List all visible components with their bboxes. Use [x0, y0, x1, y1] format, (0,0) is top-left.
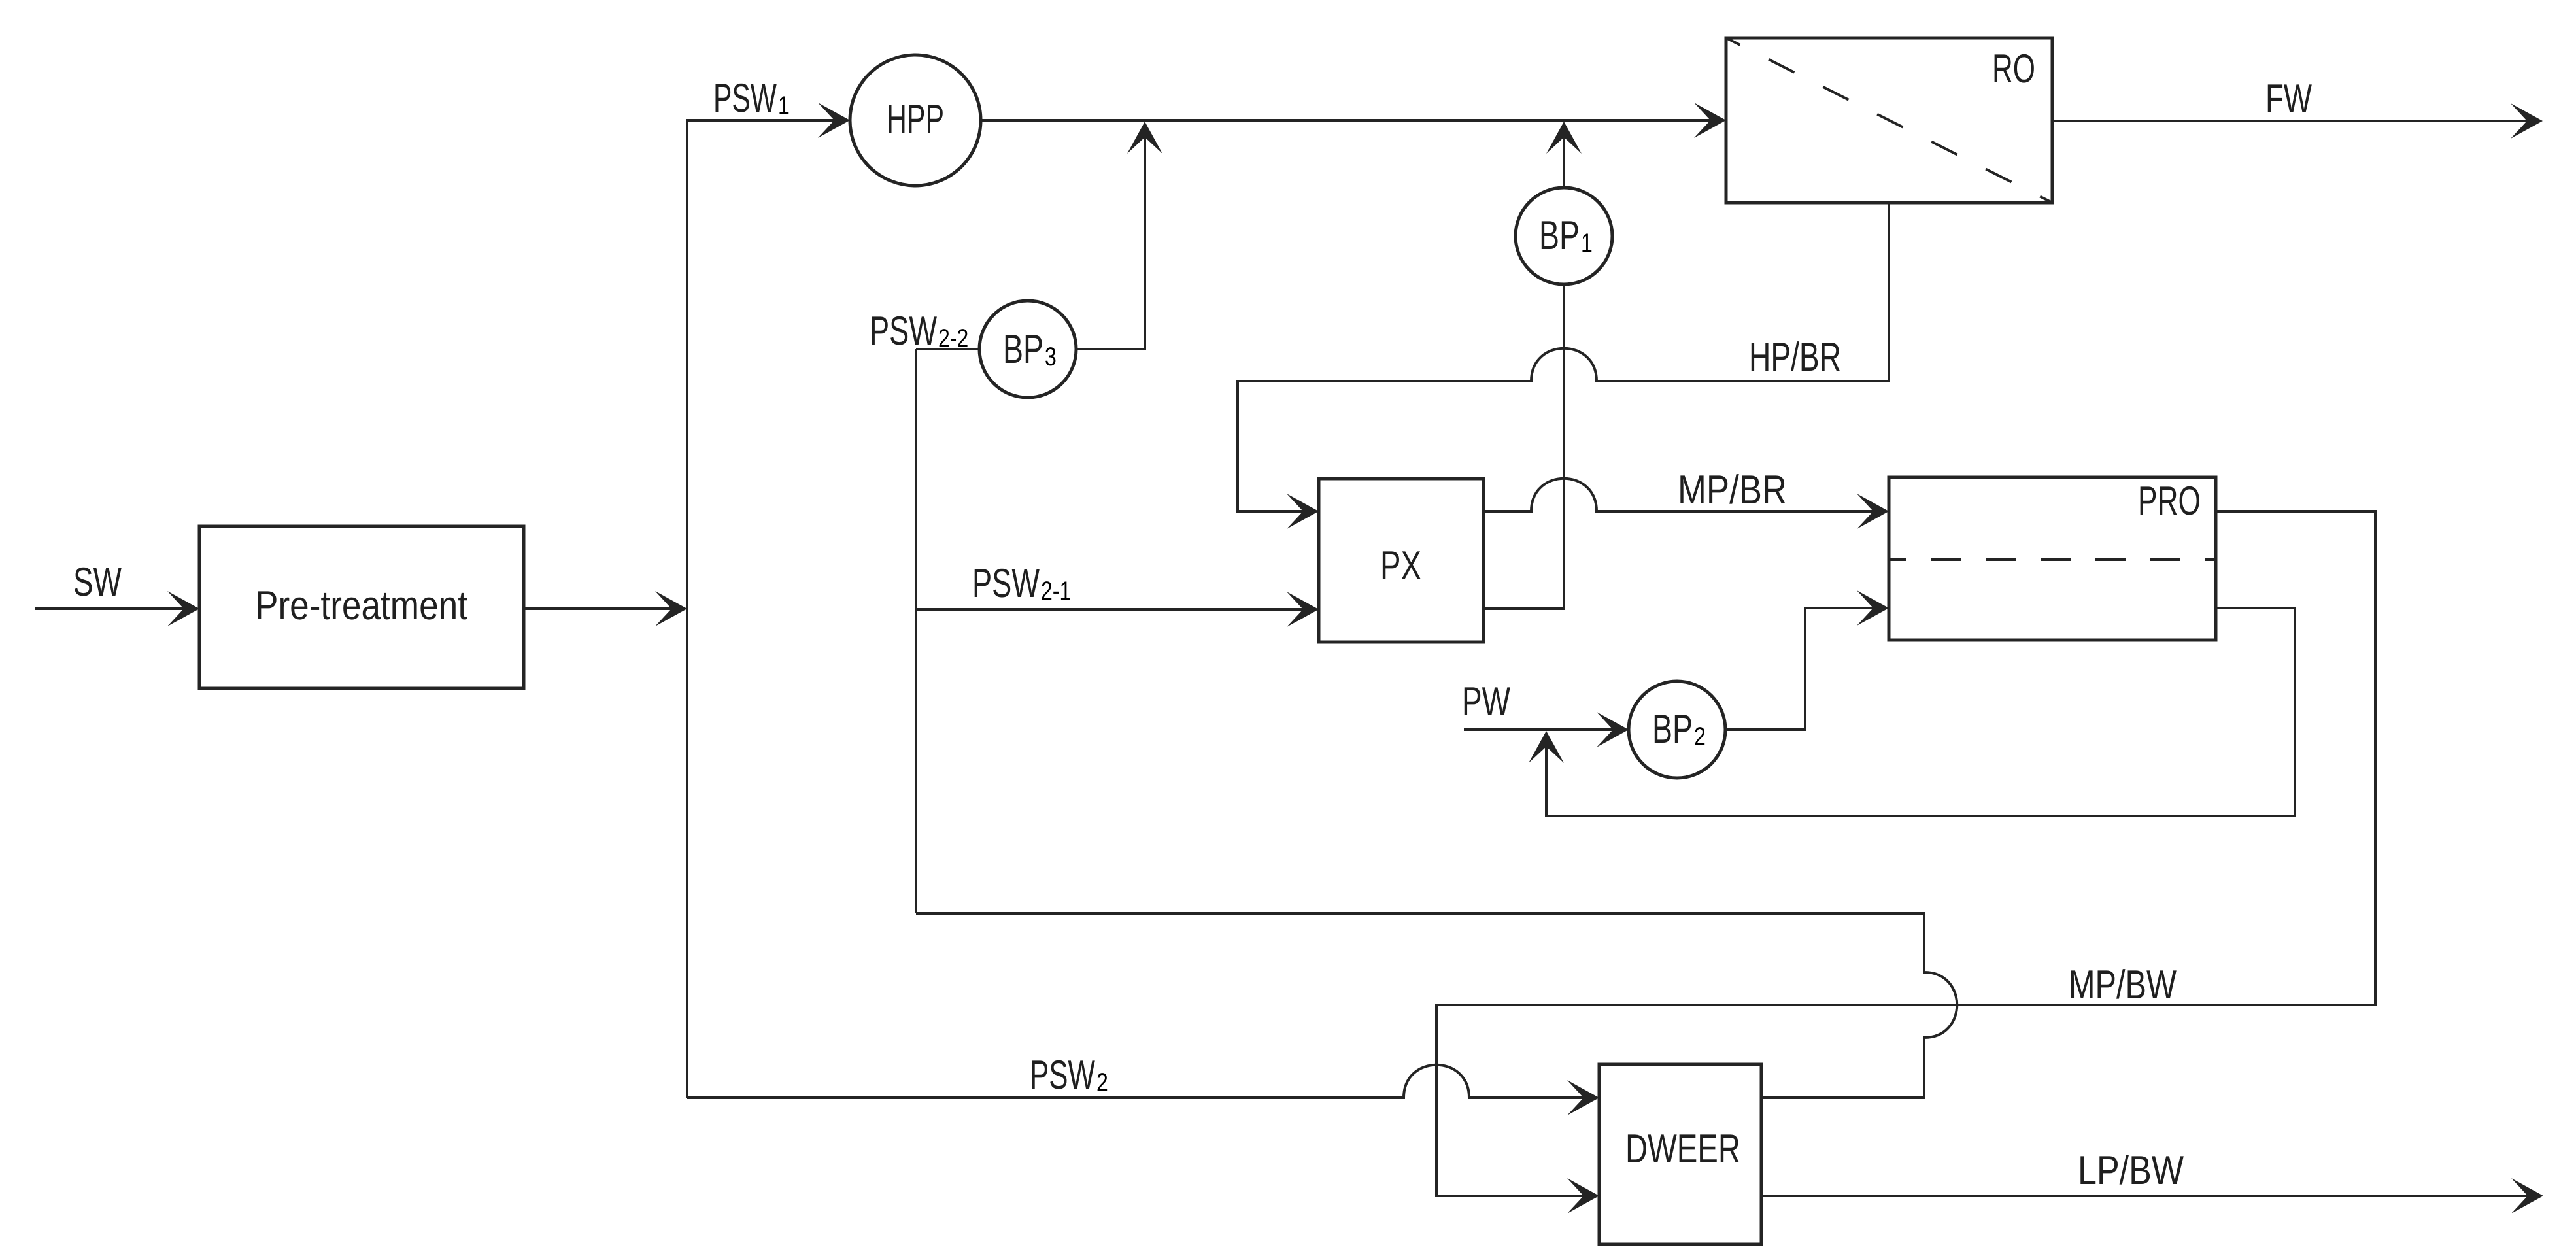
- svg-text:BP: BP: [1652, 707, 1693, 752]
- arrow into RO: [1694, 103, 1726, 138]
- svg-text:MP/BR: MP/BR: [1678, 467, 1787, 513]
- svg-text:BP: BP: [1539, 213, 1580, 258]
- arrow PSW2-1 into PX: [1287, 592, 1319, 627]
- arrow recycle into PW line: [1529, 731, 1564, 763]
- wire PW inlet to BP2: [1464, 728, 1625, 731]
- arrow into Pre-treatment: [167, 591, 199, 626]
- svg-text:DWEER: DWEER: [1625, 1127, 1740, 1172]
- wire HPP to RO: [981, 119, 1723, 122]
- wire PSW2 to DWEER (hop over MP/BW drop): [687, 1065, 1596, 1098]
- svg-text:HP/BR: HP/BR: [1749, 335, 1841, 380]
- wire LP/BW outlet: [1761, 1195, 2541, 1197]
- wire PSW2-2 to BP3: [916, 348, 979, 350]
- arrow BP2 into PRO: [1857, 590, 1889, 626]
- arrow HP/BR into PX: [1287, 494, 1319, 529]
- RO membrane dashed diagonal: [1726, 38, 2052, 203]
- wire BP3 riser to main line: [1076, 126, 1145, 349]
- svg-text:MP/BW: MP/BW: [2069, 962, 2177, 1008]
- arrow MP/BR into PRO: [1857, 494, 1889, 529]
- svg-text:LP/BW: LP/BW: [2078, 1148, 2184, 1193]
- svg-text:PX: PX: [1380, 543, 1421, 588]
- arrow into HPP: [818, 103, 850, 138]
- PRO membrane dashed line: [1889, 558, 2216, 561]
- svg-text:FW: FW: [2265, 76, 2312, 122]
- wire FW outlet: [2052, 120, 2540, 122]
- wire DWEER output riser (hop over MP/BW line): [916, 913, 1957, 1098]
- arrow Pre-treatment out to trunk: [655, 591, 687, 626]
- wire MP/BR from PX to PRO (hop over BP1 riser): [1483, 479, 1886, 511]
- svg-text:PSW: PSW: [972, 561, 1040, 606]
- wire PRO top output down to MP/BW: [1436, 511, 2375, 1196]
- wire HP/BR from RO to PX (hop over BP1 riser): [1238, 203, 1889, 511]
- pump BP2: [1629, 681, 1725, 778]
- svg-text:BP: BP: [1003, 327, 1043, 372]
- svg-text:PSW: PSW: [1030, 1053, 1095, 1098]
- svg-text:PSW: PSW: [713, 76, 777, 121]
- arrow LP/BW outlet: [2511, 1178, 2543, 1213]
- arrow MP/BW into DWEER: [1567, 1178, 1599, 1213]
- pump BP1: [1516, 188, 1612, 284]
- pump BP3: [979, 301, 1076, 398]
- wire BP2 to PRO lower input: [1725, 608, 1886, 730]
- box RO: [1726, 38, 2052, 203]
- pump HPP: [850, 55, 981, 186]
- svg-text:PRO: PRO: [2138, 479, 2201, 524]
- arrow PW into BP2: [1597, 712, 1629, 747]
- arrow BP1 riser into main line: [1546, 122, 1582, 154]
- svg-text:PSW: PSW: [870, 309, 937, 354]
- wire PSW2-1 to PX: [916, 608, 1315, 611]
- svg-text:RO: RO: [1992, 46, 2035, 92]
- svg-text:HPP: HPP: [887, 97, 944, 142]
- svg-text:PW: PW: [1462, 679, 1510, 724]
- wire SW inlet: [35, 607, 196, 610]
- arrow PSW2 into DWEER: [1567, 1080, 1599, 1115]
- wire PRO bottom recycle to PW junction: [1546, 608, 2295, 816]
- svg-text:Pre-treatment: Pre-treatment: [255, 583, 467, 628]
- arrow BP3 riser into main line: [1127, 122, 1162, 154]
- box PX: [1319, 479, 1483, 642]
- wire PSW2 split vertical: [915, 349, 917, 913]
- arrow FW outlet: [2511, 103, 2543, 139]
- box PRO: [1889, 477, 2216, 640]
- box DWEER: [1599, 1064, 1761, 1244]
- wire PSW1/PSW2 trunk vertical and to HPP: [687, 120, 847, 1098]
- box Pre-treatment: [199, 526, 524, 688]
- wire PX to BP1 riser to main line: [1483, 126, 1564, 609]
- svg-text:SW: SW: [73, 560, 122, 605]
- wire Pre-treatment to junction: [524, 607, 684, 610]
